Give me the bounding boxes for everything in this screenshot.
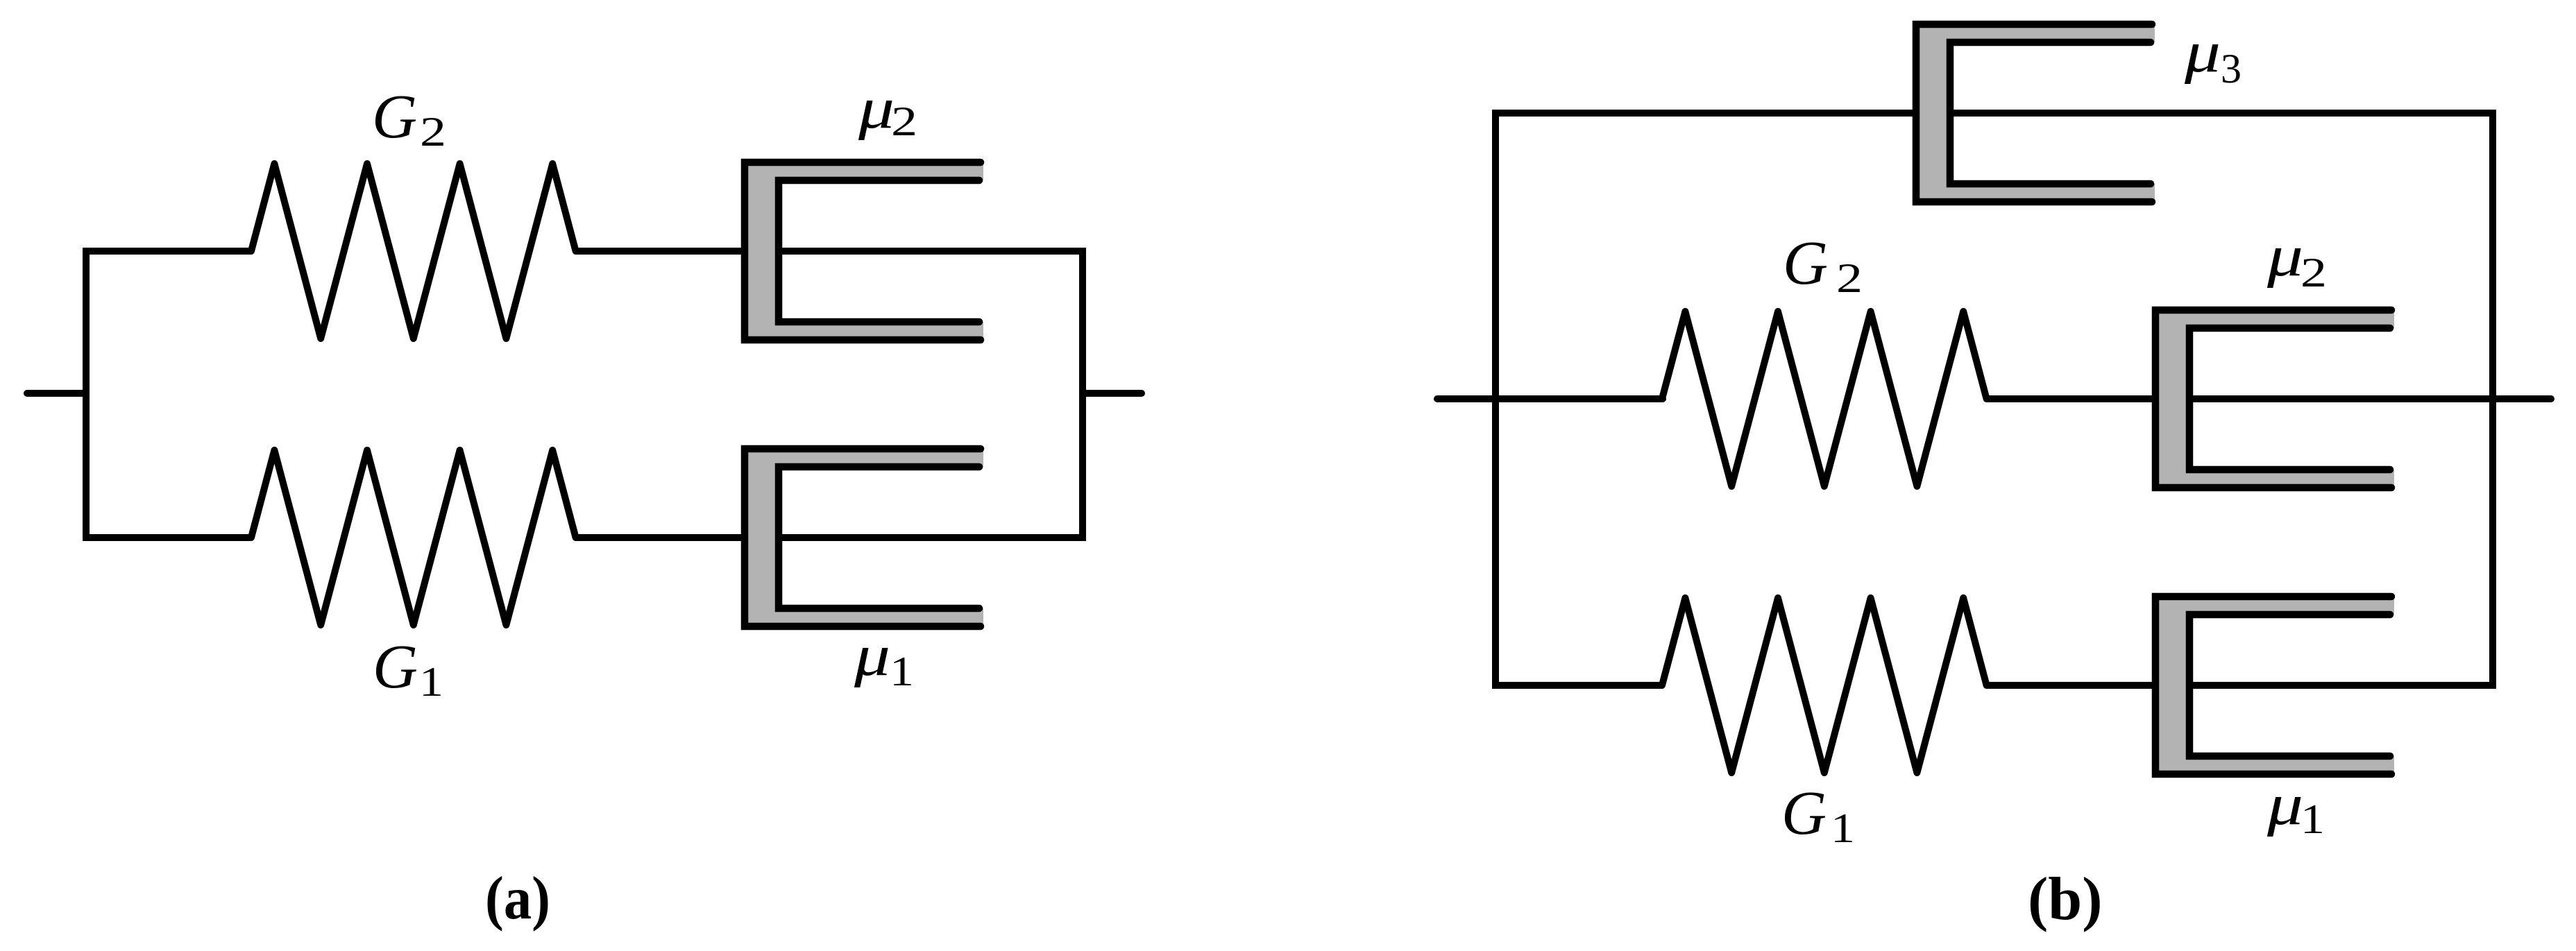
dashpot u3 (b) cylinder outline [1916,24,2152,202]
dashpot u3 (b) piston rod wire [1950,110,2493,117]
svg-text:2: 2 [1836,255,1863,301]
spring G2 (a) [248,164,578,339]
left bus wire (b) [1492,110,1499,689]
wire spring G1 to dashpot u1 (a) [577,534,745,541]
dashpot u2 (a) gray body [745,162,983,340]
dashpot u1 (a) gray body [745,449,983,626]
dashpot u1 (b) cylinder outline [2155,597,2391,774]
dashpot u1 (b) piston outline [2189,615,2390,756]
dashpot u3 (b) gray body [1916,24,2155,202]
wire spring G2 to dashpot u2 (a) [577,248,745,255]
dashpot u2 (b) piston rod wire and output terminal (b) [2189,395,2551,402]
dashpot u3 (b) piston outline [1950,42,2151,184]
svg-text:μ: μ [2266,223,2303,289]
svg-text:3: 3 [2221,46,2242,92]
dashpot u2 (b) gray body [2155,310,2394,488]
svg-text:(b): (b) [2028,866,2103,933]
right bus wire (b) [2489,110,2496,689]
dashpot u2 (b) piston outline [2189,328,2390,470]
dashpot u1 (a) piston rod wire [779,534,1083,541]
dashpot u2 (b) cylinder outline [2155,310,2391,488]
dashpot u1 (b) gray body [2155,597,2394,774]
input terminal wire (a) [27,390,86,397]
svg-text:2: 2 [891,98,917,144]
wire spring G1 to dashpot u1 (b) [1988,682,2155,689]
svg-text:1: 1 [419,659,443,705]
top branch wire to dashpot u3 (b) [1492,110,1916,117]
svg-text:1: 1 [890,649,914,694]
dashpot u2 (a) piston rod wire [779,248,1083,255]
spring G1 (a) [248,450,578,625]
spring G2 (b) [1660,311,1989,486]
svg-text:G: G [372,83,417,151]
svg-text:1: 1 [2300,796,2325,842]
left bus wire (a) [86,251,250,538]
svg-text:G: G [1783,229,1828,298]
output terminal wire (a) [1083,390,1142,397]
bottom branch wire (b) [1492,682,1663,689]
wire spring G2 to dashpot u2 (b) [1988,395,2155,402]
dashpot u2 (a) piston outline [779,180,979,322]
svg-text:μ: μ [2184,19,2221,85]
dashpot u2 (a) cylinder outline [745,162,981,340]
dashpot u1 (b) piston rod wire [2189,682,2493,689]
svg-text:2: 2 [420,109,446,155]
svg-text:G: G [1781,779,1827,848]
input terminal wire (b) [1437,395,1663,402]
dashpot u1 (a) cylinder outline [745,449,981,626]
dashpot u1 (a) piston outline [779,467,979,608]
svg-text:G: G [373,633,418,701]
svg-text:μ: μ [854,623,890,688]
svg-text:μ: μ [858,76,895,141]
svg-text:(a): (a) [485,865,550,932]
svg-text:1: 1 [1831,805,1855,851]
spring G1 (b) [1660,598,1989,773]
right bus wire (a) [1079,248,1086,541]
svg-text:μ: μ [2266,772,2303,837]
svg-text:2: 2 [2300,250,2327,295]
